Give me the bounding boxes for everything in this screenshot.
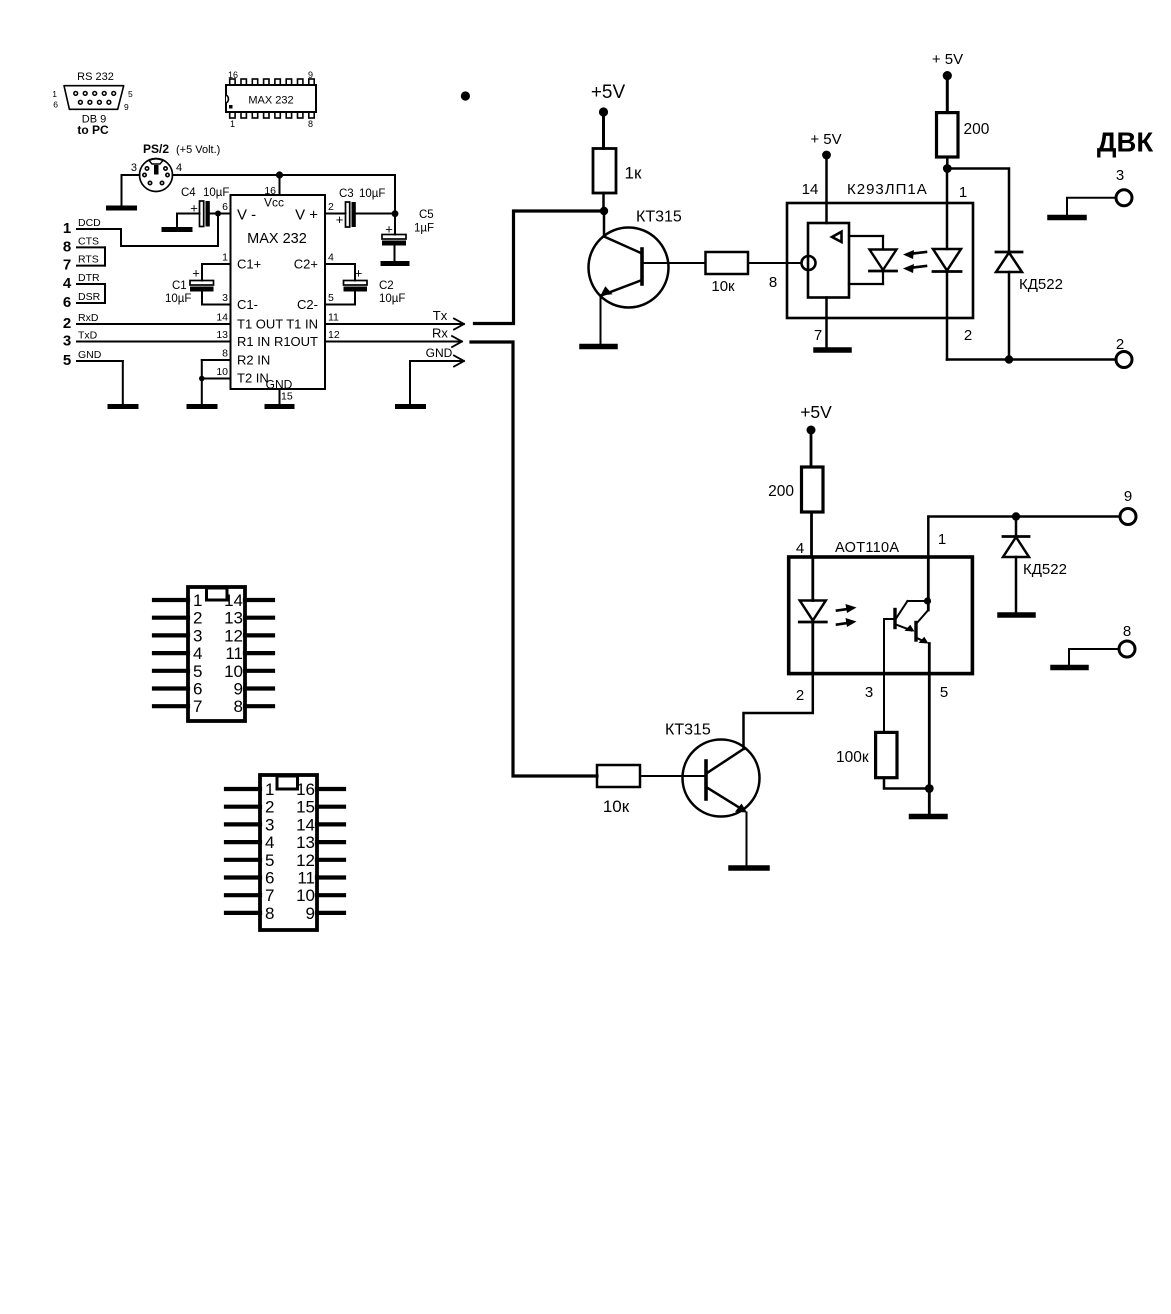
svg-text:RS 232: RS 232 (77, 71, 114, 83)
svg-text:16: 16 (296, 780, 315, 799)
capacitor C1 10uF (165, 266, 214, 306)
wire DSR (77, 302, 105, 304)
svg-text:11: 11 (328, 312, 339, 324)
wire C3 to +5V node (356, 213, 395, 215)
wire pin 1 to terminal 9 line (928, 517, 1120, 558)
resistor R3 200 (937, 113, 959, 157)
wire +5V to R4 (810, 430, 813, 467)
wire R2IN pin8 stub (202, 359, 231, 361)
capacitor C3 10uF (336, 188, 386, 227)
ground (Q2 emitter) (731, 865, 767, 871)
wire C4 left to ground (177, 214, 200, 228)
svg-text:100к: 100к (836, 749, 869, 766)
junction V- node (215, 211, 221, 217)
svg-text:3: 3 (222, 292, 228, 304)
wire DB9 GND to ground (122, 361, 124, 404)
node Tx arrow (454, 319, 464, 325)
light arrows (right) (837, 604, 857, 627)
wire pin 3 to R5 (883, 674, 885, 733)
svg-text:14: 14 (224, 591, 243, 610)
svg-text:1µF: 1µF (414, 223, 434, 235)
capacitor C2 10uF (344, 266, 406, 306)
IC DIP-14 pinout drawing (154, 587, 273, 721)
svg-text:8: 8 (265, 904, 274, 923)
wire DCD (77, 228, 121, 230)
svg-text:to PC: to PC (77, 123, 109, 137)
svg-text:(+5 Volt.): (+5 Volt.) (176, 144, 220, 156)
wire R2IN/T2IN to ground (201, 360, 203, 404)
svg-text:C3: C3 (339, 188, 354, 200)
svg-text:6: 6 (53, 100, 58, 110)
svg-text:4: 4 (796, 540, 804, 557)
svg-text:6: 6 (193, 680, 202, 699)
svg-text:КТ315: КТ315 (636, 209, 682, 226)
resistor R5 100k (876, 732, 897, 777)
ground (PS/2) (109, 206, 135, 211)
svg-text:13: 13 (224, 609, 243, 628)
svg-text:14: 14 (802, 181, 819, 198)
svg-text:6: 6 (265, 869, 274, 888)
wire node to KD522 anode (947, 169, 1009, 253)
wire LED back to driver (bottom) (849, 283, 883, 285)
svg-text:8: 8 (769, 274, 777, 291)
wire base pin 3 (883, 619, 885, 674)
ground (terminal 3) (1050, 215, 1084, 221)
svg-text:АОТ110А: АОТ110А (835, 540, 899, 556)
wire GND (77, 360, 123, 362)
svg-text:C2: C2 (379, 280, 394, 292)
darlington phototransistor (884, 557, 931, 644)
svg-text:1: 1 (265, 780, 274, 799)
svg-text:3: 3 (63, 333, 71, 350)
capacitor C5 1uF (382, 209, 434, 246)
driver inverter triangle mark (832, 232, 842, 242)
diode VD1 KD522 (996, 252, 1022, 360)
svg-text:2: 2 (328, 201, 334, 213)
svg-text:MAX 232: MAX 232 (247, 231, 307, 247)
svg-text:TxD: TxD (78, 330, 98, 342)
svg-text:1: 1 (63, 220, 71, 237)
svg-text:5: 5 (193, 662, 202, 681)
svg-text:R1 IN: R1 IN (237, 334, 270, 349)
wire pin 2 to Q2 collector (744, 674, 813, 749)
svg-text:8: 8 (1123, 623, 1131, 640)
svg-text:2: 2 (63, 315, 71, 332)
ground (R2IN/T2IN) (189, 404, 215, 409)
wire pin2 line to terminal 2 (947, 358, 1116, 361)
ground (KD522-2) (1000, 612, 1033, 618)
svg-text:К293ЛП1А: К293ЛП1А (847, 181, 928, 198)
svg-text:2: 2 (964, 327, 972, 344)
svg-text:Tx: Tx (433, 308, 448, 323)
photodiode of K293 (pins 1-2) (933, 169, 961, 360)
svg-text:3: 3 (1116, 167, 1124, 184)
junction at V+ node (392, 210, 399, 217)
svg-text:3: 3 (193, 626, 202, 645)
wire R1 to collector node (602, 193, 605, 211)
svg-text:PS/2: PS/2 (143, 142, 169, 156)
junction T2IN (199, 376, 205, 382)
svg-text:2: 2 (193, 609, 202, 628)
svg-text:4: 4 (265, 833, 274, 852)
svg-text:GND: GND (426, 346, 453, 360)
svg-text:C2-: C2- (297, 297, 318, 312)
svg-text:C1: C1 (172, 280, 187, 292)
svg-text:7: 7 (63, 257, 71, 274)
svg-text:2: 2 (796, 687, 804, 704)
svg-text:V -: V - (237, 207, 256, 224)
wire C5 to ground (394, 246, 396, 262)
svg-text:C1+: C1+ (237, 257, 261, 272)
wire C2+ pin4 to C2 (325, 264, 355, 281)
svg-text:1к: 1к (625, 164, 642, 183)
svg-text:5: 5 (128, 89, 133, 99)
svg-text:3: 3 (265, 815, 274, 834)
svg-text:КТ315: КТ315 (665, 722, 711, 739)
svg-text:1: 1 (222, 252, 228, 264)
svg-text:T1 OUT: T1 OUT (237, 317, 283, 332)
wire CTS-RTS loop (104, 247, 106, 265)
svg-text:12: 12 (224, 626, 243, 645)
wire R2 to optocoupler input (748, 262, 801, 264)
junction KD522-2 (1012, 512, 1020, 520)
svg-text:10µF: 10µF (379, 293, 405, 305)
svg-text:9: 9 (1124, 488, 1132, 505)
svg-text:4: 4 (193, 644, 202, 663)
wire +5V rail: PS/2 pin4 to Vcc and V+ node (173, 175, 396, 235)
resistor R1 1k (593, 149, 616, 194)
junction emitter/R5 (925, 784, 934, 793)
svg-text:T2 IN: T2 IN (237, 371, 269, 386)
svg-text:14: 14 (216, 312, 228, 324)
wire R4 to pin 4 (810, 512, 813, 557)
svg-text:7: 7 (193, 697, 202, 716)
svg-text:4: 4 (176, 162, 182, 174)
svg-text:9: 9 (124, 102, 129, 112)
svg-text:11: 11 (297, 869, 315, 888)
wire pin 7 to ground (825, 298, 828, 348)
svg-text:5: 5 (63, 352, 71, 369)
svg-text:8: 8 (63, 238, 71, 255)
svg-text:5: 5 (940, 684, 948, 701)
svg-text:11: 11 (225, 644, 243, 663)
wire Rx line down to base resistor (thick) (471, 342, 597, 776)
node GND arrow (454, 356, 464, 362)
wire CTS (77, 246, 105, 248)
wire R5 to ground node (884, 778, 929, 789)
svg-text:2: 2 (265, 798, 274, 817)
svg-text:10к: 10к (603, 797, 630, 816)
wire R3 to photodiode node (946, 157, 949, 169)
svg-text:7: 7 (265, 886, 274, 905)
svg-text:8: 8 (222, 348, 228, 360)
svg-text:КД522: КД522 (1023, 561, 1067, 578)
svg-text:V +: V + (295, 207, 318, 224)
wire +5V to R 1k (602, 112, 605, 149)
svg-text:15: 15 (296, 798, 315, 817)
svg-text:7: 7 (814, 327, 822, 344)
wire C1+ pin1 to C1 (202, 264, 231, 281)
svg-text:+5V: +5V (800, 402, 832, 422)
ground (terminal 8) (1053, 665, 1086, 671)
wire pin 5 down (928, 644, 931, 815)
LED diode of AOT110A (799, 557, 826, 674)
ground (C5) (383, 261, 407, 266)
wire PS/2 pin3 to ground (122, 175, 140, 206)
svg-text:12: 12 (296, 851, 315, 870)
svg-text:MAX 232: MAX 232 (248, 95, 293, 107)
svg-text:C2+: C2+ (294, 257, 318, 272)
svg-text:C5: C5 (419, 209, 434, 221)
svg-text:15: 15 (281, 391, 293, 403)
node Rx arrow (452, 336, 462, 342)
wire DTR-DSR loop (104, 284, 106, 303)
wire driver to LED (top) (849, 235, 883, 237)
junction at Vcc (276, 171, 283, 178)
wire C4 to V- pin 6 (210, 213, 231, 215)
wire T1 IN to Tx arrow (325, 323, 462, 325)
connector PS/2 (+5 Volt) (131, 142, 220, 192)
svg-text:10к: 10к (711, 278, 735, 295)
svg-text:Vcc: Vcc (264, 196, 284, 210)
resistor R6 10k (597, 765, 640, 787)
wire DTR (77, 283, 105, 285)
resistor R4 200 (802, 467, 824, 512)
svg-text:1: 1 (938, 531, 946, 548)
wire terminal 3 to ground (1067, 198, 1116, 215)
svg-text:GND: GND (78, 349, 102, 361)
svg-text:16: 16 (228, 70, 238, 80)
svg-text:+: + (192, 266, 200, 281)
junction collector node (600, 207, 608, 215)
svg-text:3: 3 (865, 684, 873, 701)
svg-text:10µF: 10µF (203, 187, 229, 199)
junction KD522 cathode (1005, 355, 1013, 363)
svg-text:6: 6 (63, 294, 71, 311)
svg-text:C1-: C1- (237, 297, 258, 312)
ground (AOT110A pin5) (912, 814, 946, 820)
ground (MAX232 pin15) (267, 404, 292, 409)
connector DB9 RS-232 to PC (52, 71, 133, 137)
junction photodiode anode node (943, 164, 952, 173)
svg-text:13: 13 (296, 833, 315, 852)
svg-text:8: 8 (234, 697, 243, 716)
ground (Q1 emitter) (582, 344, 615, 350)
diode VD2 KD522 (1003, 517, 1029, 613)
wire R6 to base (640, 775, 706, 777)
svg-text:5: 5 (328, 292, 334, 304)
svg-text:R2 IN: R2 IN (237, 353, 270, 368)
svg-text:200: 200 (768, 483, 794, 500)
input pin 8 circle (802, 256, 816, 270)
wire R1 OUT to Rx arrow (325, 341, 460, 343)
svg-text:CTS: CTS (78, 235, 99, 247)
svg-text:200: 200 (964, 121, 990, 138)
svg-text:10µF: 10µF (359, 188, 385, 200)
svg-text:+ 5V: + 5V (932, 51, 963, 68)
svg-text:12: 12 (328, 329, 340, 341)
ground (DB9 GND) (110, 404, 136, 409)
svg-text:10µF: 10µF (165, 293, 191, 305)
svg-text:1: 1 (193, 591, 202, 610)
svg-text:DTR: DTR (78, 272, 100, 284)
IC MAX232 DIP-16 package drawing (226, 70, 316, 129)
wire +5V to R3 (946, 76, 949, 113)
svg-text:ДВК: ДВК (1097, 127, 1153, 158)
wire V+ pin2 to C3 (325, 213, 346, 215)
svg-text:RxD: RxD (78, 312, 99, 324)
wire GND to arrow (410, 360, 462, 362)
svg-text:6: 6 (222, 201, 228, 213)
svg-text:8: 8 (308, 119, 313, 129)
svg-text:5: 5 (265, 851, 274, 870)
junction dot (stray) (461, 91, 470, 100)
svg-text:Rx: Rx (432, 326, 448, 341)
capacitor C4 10uF (181, 187, 229, 227)
wire C1 to C1- pin3 (202, 292, 231, 305)
svg-text:10: 10 (224, 662, 243, 681)
svg-text:T1 IN: T1 IN (286, 317, 318, 332)
wire T2IN pin10 stub (202, 378, 231, 380)
wire Vcc pin 16 (279, 175, 281, 195)
resistor R2 10k (706, 252, 749, 274)
transistor Q1 KT315 (589, 209, 706, 345)
svg-text:9: 9 (308, 70, 313, 80)
svg-text:14: 14 (296, 815, 315, 834)
wire Tx line to transistor collector node (thick) (475, 211, 602, 324)
wire terminal 8 to ground (1069, 649, 1119, 665)
wire TxD (77, 341, 231, 343)
IC DIP-16 pinout drawing (226, 775, 344, 930)
svg-text:9: 9 (306, 904, 315, 923)
light arrows (left) (903, 250, 926, 273)
transistor Q2 KT315 (665, 722, 760, 866)
svg-text:10: 10 (296, 886, 315, 905)
svg-text:3: 3 (131, 162, 137, 174)
svg-text:DCD: DCD (78, 217, 101, 229)
svg-text:13: 13 (216, 329, 228, 341)
svg-text:4: 4 (63, 275, 72, 292)
wire GND down (409, 361, 411, 404)
svg-text:C4: C4 (181, 187, 196, 199)
wire GND pin 15 (279, 389, 281, 404)
svg-text:9: 9 (234, 680, 243, 699)
IC U1 MAX232 (schematic block) (216, 195, 340, 403)
svg-text:10: 10 (216, 366, 228, 378)
wire RTS (77, 265, 105, 267)
svg-text:+ 5V: + 5V (810, 131, 841, 148)
svg-text:4: 4 (328, 252, 334, 264)
wire +5V to pin 14 (825, 155, 828, 223)
wire RxD (77, 323, 231, 325)
svg-text:1: 1 (52, 89, 57, 99)
wire DCD to V- node (121, 214, 218, 247)
ground (K293 pin7) (816, 347, 849, 353)
ground (C4) (164, 227, 190, 232)
svg-text:RTS: RTS (78, 254, 99, 266)
svg-text:+5V: +5V (591, 82, 626, 103)
ground (GND arrow) (398, 404, 424, 409)
svg-text:1: 1 (230, 119, 235, 129)
svg-text:R1OUT: R1OUT (274, 334, 318, 349)
wire C2 to C2- pin5 (325, 292, 355, 305)
svg-text:1: 1 (959, 184, 967, 201)
svg-text:DSR: DSR (78, 291, 101, 303)
LED diode of K293 (870, 236, 897, 284)
svg-text:КД522: КД522 (1019, 276, 1063, 293)
